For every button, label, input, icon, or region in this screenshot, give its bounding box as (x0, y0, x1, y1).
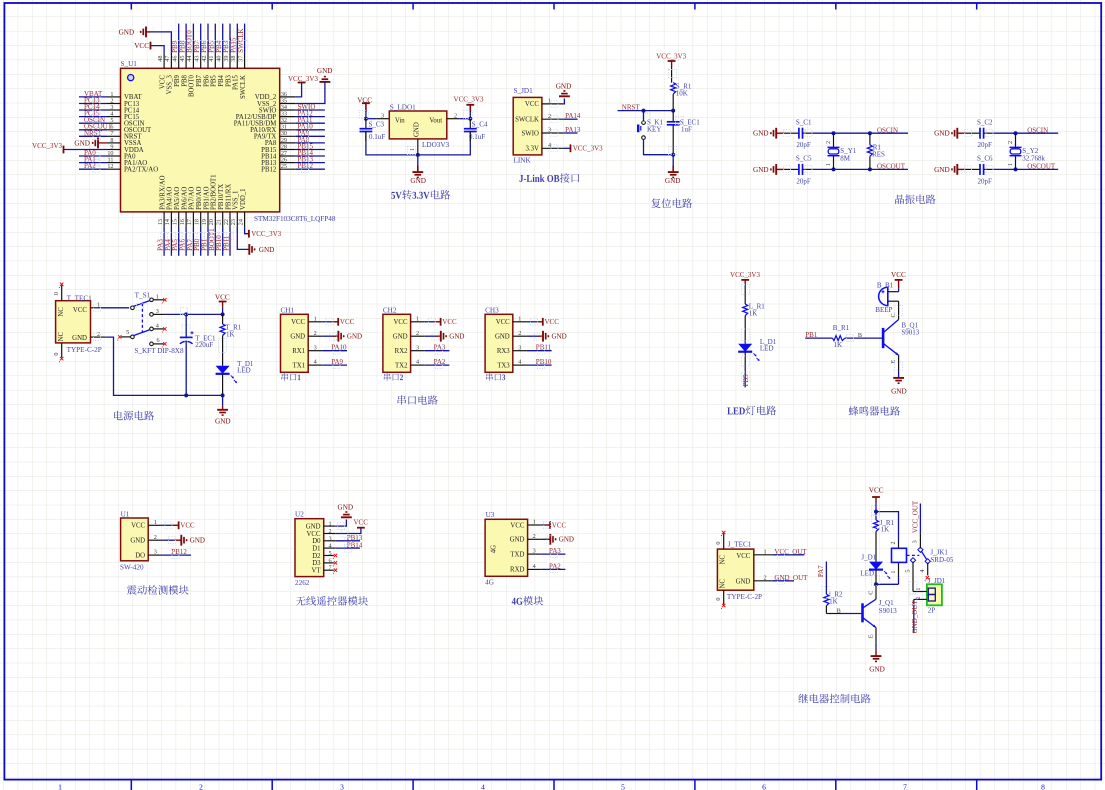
svg-text:BOOT0: BOOT0 (189, 74, 196, 97)
svg-text:1: 1 (825, 163, 832, 166)
wire net SWCLK to U1 top pin 37 (244, 24, 246, 53)
wire U3 pin1 to VCC (541, 524, 545, 526)
svg-text:GND: GND (495, 334, 510, 341)
svg-text:D3: D3 (312, 560, 321, 567)
ground at U1 pin 47 VSS_3 (119, 27, 172, 53)
svg-text:VSS_3: VSS_3 (167, 75, 174, 95)
svg-text:19: 19 (201, 219, 208, 225)
ground (power circuit) (215, 395, 231, 425)
svg-text:J_D1: J_D1 (861, 554, 876, 562)
svg-text:7: 7 (328, 565, 331, 572)
ground (crystal OSCOUT row) (934, 164, 965, 175)
svg-text:PA2: PA2 (84, 162, 96, 170)
wire LDO1 Vout to C4 (447, 117, 473, 121)
ground at U3 (545, 534, 574, 545)
svg-text:1: 1 (97, 302, 100, 309)
wire net PB1 from U1 bottom pin 19 (207, 227, 209, 256)
no-connect on S1 pin 4 (163, 327, 166, 330)
svg-text:2P: 2P (928, 606, 936, 614)
svg-text:3: 3 (912, 540, 919, 543)
wire net PB7 to U1 top pin 43 (200, 24, 202, 53)
svg-text:1K: 1K (829, 598, 838, 606)
svg-text:E: E (890, 359, 897, 363)
svg-text:3: 3 (381, 112, 384, 119)
svg-text:VSS_1: VSS_1 (233, 191, 240, 210)
svg-text:STM32F103C8T6_LQFP48: STM32F103C8T6_LQFP48 (254, 215, 336, 223)
power flag VCC_3V3 at JD1 pin4 (571, 144, 604, 152)
no-connect U2 pin5 (334, 554, 337, 557)
svg-text:VCC: VCC (73, 307, 87, 314)
svg-text:GND: GND (259, 246, 275, 254)
wire Q1 collector (867, 584, 876, 599)
wire K1 to ground rail (644, 139, 674, 154)
wire VCC_3V3 to U1 pin 36 (296, 83, 302, 97)
svg-text:2: 2 (97, 331, 100, 338)
wire net VBAT to U1 pin 1 (79, 96, 107, 98)
svg-text:1: 1 (533, 519, 536, 526)
power flag VCC_3V3 (led circuit) (730, 271, 760, 304)
wire JD1 pin4 to VCC_3V3 (563, 147, 570, 149)
wire CH2 pin2 to GND (425, 335, 435, 337)
svg-text:VCC: VCC (215, 294, 230, 302)
sheet column numbers (58, 783, 1045, 790)
wire VDD_1 to VCC_3V3 flag (245, 227, 249, 234)
J_TEC1 bottom NC pin with no-connect (715, 590, 726, 609)
wire net GND_OUT (772, 580, 794, 582)
svg-text:2: 2 (314, 330, 317, 337)
module U1 body (SW-420) (121, 518, 149, 561)
wire CH3 pin3 to PB11 (527, 350, 552, 352)
svg-text:PB11/RX: PB11/RX (225, 184, 232, 210)
resistor R1 (RES) (867, 133, 885, 169)
power flag VCC_3V3 at U1 pin 9 VDDA (32, 142, 107, 153)
svg-text:LDO3V3: LDO3V3 (422, 141, 450, 149)
svg-text:2: 2 (1007, 141, 1014, 144)
wire buzzer to Q1 collector (890, 301, 899, 319)
svg-text:LED: LED (760, 344, 774, 352)
svg-text:VDD_1: VDD_1 (240, 188, 247, 210)
TEC1 bottom NC pin with no-connect (53, 343, 64, 362)
circuit title J-Link OB (519, 173, 579, 183)
svg-text:GND: GND (306, 523, 321, 530)
resistor R1 (S_R1 10K) (671, 83, 692, 98)
svg-text:14: 14 (164, 219, 171, 225)
svg-text:PB10: PB10 (536, 358, 552, 366)
svg-text:SWIO: SWIO (522, 130, 539, 137)
svg-text:VCC_3V3: VCC_3V3 (32, 142, 62, 150)
power flag VCC_3V3 (LDO output) (454, 95, 484, 118)
svg-text:RX2: RX2 (395, 348, 408, 355)
svg-text:T_TEC1: T_TEC1 (67, 294, 93, 302)
svg-text:PA3: PA3 (549, 547, 561, 555)
wire LDO ground rail (366, 132, 470, 157)
svg-text:RX3: RX3 (497, 348, 510, 355)
svg-text:10K: 10K (676, 90, 688, 98)
svg-text:VCC: VCC (159, 75, 166, 89)
svg-text:1K: 1K (226, 331, 235, 339)
wire CH2 pin4 to PA2 (425, 364, 450, 366)
svg-text:4: 4 (533, 563, 536, 570)
svg-text:20pF: 20pF (796, 141, 811, 149)
svg-text:SW-420: SW-420 (120, 563, 144, 571)
svg-text:VCC: VCC (496, 319, 510, 326)
svg-text:4G: 4G (490, 545, 497, 553)
svg-text:GND: GND (190, 537, 205, 545)
svg-text:SWCLK: SWCLK (515, 117, 539, 124)
resistor R1 (J_R1 1K) (874, 512, 895, 534)
ground (crystal OSCOUT row) (753, 164, 784, 175)
circuit title 5V to 3.3V (391, 190, 450, 200)
ground at U1 pin 23 VSS_1 (237, 227, 274, 255)
wire JD1 pin1 from relay pin5 (913, 588, 927, 592)
svg-text:VCC: VCC (291, 319, 305, 326)
wire net PA4 from U1 bottom pin 14 (170, 227, 172, 256)
svg-text:KEY: KEY (647, 125, 661, 133)
svg-text:CH2: CH2 (383, 306, 397, 314)
circuit title reset (651, 198, 692, 208)
svg-text:TXD: TXD (510, 551, 524, 558)
svg-text:PB12: PB12 (261, 167, 277, 174)
wire net PA9 to U1 pin 30 (296, 135, 325, 137)
svg-text:0: 0 (715, 542, 722, 545)
wire U1 pin1 to VCC (162, 524, 172, 526)
switch K1 (S_K1 KEY) (638, 111, 663, 140)
svg-text:17: 17 (186, 219, 193, 225)
svg-text:GND: GND (410, 177, 426, 185)
svg-text:6: 6 (328, 557, 331, 564)
wire CH1 pin2 to GND (322, 335, 332, 337)
svg-text:GND: GND (559, 536, 574, 544)
svg-text:B: B (858, 332, 862, 339)
wire U1 pin2 to GND (162, 539, 174, 541)
svg-text:2: 2 (915, 597, 922, 600)
svg-text:4G: 4G (485, 579, 494, 587)
svg-text:VCC_3V3: VCC_3V3 (730, 271, 760, 279)
svg-text:TYPE-C-2P: TYPE-C-2P (727, 593, 762, 601)
svg-text:Vin: Vin (395, 118, 405, 125)
wire Q1 emitter to GND (867, 628, 876, 650)
CH2 pins (411, 315, 425, 365)
svg-text:1K: 1K (749, 310, 758, 318)
svg-text:PB7: PB7 (196, 75, 203, 87)
svg-text:GND: GND (556, 83, 572, 91)
svg-text:2: 2 (454, 112, 457, 119)
svg-text:TYPE-C-2P: TYPE-C-2P (67, 346, 102, 354)
J_TEC1 pin1 to VCC_OUT (754, 548, 808, 556)
svg-text:24: 24 (237, 219, 244, 225)
svg-text:LED: LED (237, 366, 251, 374)
svg-text:4: 4 (314, 359, 317, 366)
svg-text:PA5/AO: PA5/AO (174, 187, 181, 210)
ground above U2 (338, 503, 354, 517)
svg-text:S_C3: S_C3 (369, 121, 385, 129)
wire VCC to U1 pin 48 (151, 46, 165, 53)
wire GND to U1 pin 47 (151, 32, 172, 53)
svg-text:6: 6 (157, 337, 160, 344)
wire net VCC_OUT (772, 554, 804, 556)
svg-text:5: 5 (904, 570, 911, 573)
svg-text:3: 3 (314, 344, 317, 351)
svg-text:VCC: VCC (545, 318, 560, 326)
wire net PB13 to U1 pin 26 (296, 162, 325, 164)
svg-text:PB1/AO: PB1/AO (203, 186, 210, 210)
power flag VCC (LDO input) (357, 96, 372, 118)
svg-text:S9013: S9013 (901, 329, 919, 337)
svg-text:VCC_3V3: VCC_3V3 (251, 230, 281, 238)
svg-text:3: 3 (328, 535, 331, 542)
svg-text:5: 5 (126, 329, 129, 336)
svg-text:PB5: PB5 (211, 75, 218, 87)
svg-text:TX2: TX2 (395, 362, 408, 369)
wire net NRST to U1 pin 7 (79, 135, 107, 137)
svg-text:SWCLK: SWCLK (240, 75, 247, 99)
svg-text:S_KFT DIP-8X8: S_KFT DIP-8X8 (134, 347, 184, 355)
wire net PB12 to U1 pin 25 (296, 168, 325, 170)
svg-text:B_R1: B_R1 (833, 324, 850, 332)
relay JK1 switch contacts (910, 547, 930, 564)
wire CH1 pin1 to VCC (322, 321, 332, 323)
svg-text:S_JD1: S_JD1 (514, 87, 534, 95)
ground at JD1 pin1 (556, 83, 572, 97)
svg-text:VCC: VCC (736, 553, 750, 560)
switch S1 (T_S1 S_KFT DIP-8X8) (121, 291, 184, 355)
led D1 (T_D1 LED) (216, 360, 254, 395)
svg-text:3: 3 (518, 344, 521, 351)
svg-text:CH1: CH1 (281, 306, 295, 314)
regulator U2 body (S_LDO1 LDO3V3) (389, 111, 447, 139)
TEC1 pin2 GND (91, 331, 106, 338)
svg-text:GND: GND (869, 665, 885, 673)
wire S1 pin3 to VCC node (165, 312, 225, 316)
svg-text:VCC: VCC (891, 271, 906, 279)
resistor R1 (L_R1 1K) (743, 303, 766, 318)
svg-text:0: 0 (53, 353, 60, 356)
wire net PA15 to U1 top pin 38 (236, 24, 238, 53)
svg-text:3: 3 (416, 344, 419, 351)
svg-text:VCC_3V3: VCC_3V3 (656, 53, 686, 61)
svg-text:TX1: TX1 (293, 362, 305, 369)
ground (reset) (665, 153, 681, 185)
wire U2 pin2 to VCC (335, 528, 361, 534)
svg-text:5: 5 (328, 550, 331, 557)
svg-text:PA7/AO: PA7/AO (189, 187, 196, 210)
svg-text:220uF: 220uF (195, 341, 213, 349)
svg-text:1: 1 (328, 521, 331, 528)
svg-text:TX3: TX3 (497, 362, 510, 369)
svg-text:LINK: LINK (514, 157, 532, 165)
svg-text:U2: U2 (295, 511, 304, 519)
CH3 pins (513, 315, 527, 365)
wire U3 pin3 to PA3 (541, 553, 566, 555)
svg-text:38: 38 (230, 56, 237, 62)
ground at CH2 (435, 331, 465, 342)
ground at CH3 (537, 331, 567, 342)
power flag VCC at U2 (353, 518, 368, 527)
capacitor S_C6 20pF (965, 155, 993, 186)
module U3 body (4G) (485, 519, 527, 576)
svg-text:4: 4 (548, 142, 551, 149)
svg-text:22: 22 (223, 219, 230, 225)
svg-text:PA6/AO: PA6/AO (181, 187, 188, 210)
svg-text:J_JD1: J_JD1 (928, 577, 946, 585)
svg-text:41: 41 (208, 56, 215, 62)
power flag VCC at CH1 (332, 318, 355, 326)
wire net SWIO to U1 pin 34 (296, 109, 325, 111)
circuit title crystal (895, 194, 935, 204)
svg-text:J_TEC1: J_TEC1 (728, 541, 752, 549)
svg-text:GND: GND (130, 538, 145, 545)
wire net OSCOUT (813, 167, 909, 171)
svg-text:GND_OUT: GND_OUT (911, 600, 919, 634)
connector JD1 body (S_JD1 LINK) (513, 97, 542, 154)
connector TEC1 body (J_TEC1 TYPE-C-2P) (717, 549, 753, 590)
power flag VCC at CH2 (434, 318, 457, 326)
svg-text:20pF: 20pF (796, 177, 811, 185)
svg-text:0: 0 (715, 598, 722, 601)
svg-text:CH3: CH3 (485, 306, 499, 314)
svg-text:1: 1 (518, 315, 521, 322)
no-connect U2 pin6 (334, 561, 337, 565)
svg-text:GND: GND (72, 335, 87, 342)
ground at CH1 (333, 331, 363, 342)
svg-text:2: 2 (890, 541, 897, 544)
power flag VCC_3V3 at U1 pin 36 VDD_2 (288, 75, 318, 97)
led D1 (J_D1 LED) (860, 554, 890, 579)
svg-text:3: 3 (340, 783, 344, 790)
svg-text:GND: GND (665, 177, 681, 185)
svg-text:40: 40 (215, 55, 222, 61)
buzzer B1 (B_B1 BEEP) (875, 281, 898, 314)
svg-text:GND: GND (393, 334, 408, 341)
wire VSS_1 to GND (237, 227, 249, 250)
svg-text:VCC_OUT: VCC_OUT (912, 500, 920, 533)
svg-text:20pF: 20pF (978, 141, 993, 149)
svg-text:GND: GND (934, 130, 950, 138)
wire TEC1 VCC to switch S1 (101, 307, 130, 309)
wire U3 pin2 to GND (541, 538, 545, 540)
svg-text:3: 3 (154, 549, 157, 556)
name serial port 3 (486, 373, 505, 381)
wire VCC to LDO1 Vin and C3 (364, 117, 389, 121)
wire net OSCIN to U1 pin 5 (79, 122, 107, 124)
svg-text:VCC_OUT: VCC_OUT (774, 548, 807, 556)
power flag VCC at CH3 (536, 318, 559, 326)
wire net PA2 to U1 pin 12 (79, 168, 107, 170)
svg-text:PB3: PB3 (225, 74, 232, 86)
capacitor C3 (S_C3 0.1uF) (360, 119, 386, 141)
wire net PA0 to U1 pin 10 (79, 155, 107, 157)
svg-text:C: C (890, 313, 897, 317)
ground at U1 pin 8 VSSA (74, 138, 107, 149)
svg-text:T_S1: T_S1 (135, 291, 151, 299)
svg-text:PA14: PA14 (565, 112, 581, 120)
svg-text:4: 4 (416, 359, 419, 366)
ground (crystal OSCIN row) (934, 128, 965, 139)
svg-text:1: 1 (314, 315, 317, 322)
svg-text:2: 2 (416, 330, 419, 337)
no-connect on S1 pin 1 (163, 298, 166, 301)
svg-text:BEEP: BEEP (875, 306, 892, 314)
wire net PA7 from U1 bottom pin 17 (192, 227, 194, 256)
svg-text:2: 2 (763, 575, 766, 582)
svg-text:GND: GND (449, 333, 464, 341)
circuit title wireless remote (296, 596, 368, 606)
wire net PB8 to U1 top pin 45 (185, 24, 187, 53)
relay pin4 with no-connect (919, 563, 929, 582)
wire net BOOT0 to U1 top pin 44 (192, 24, 194, 53)
circuit title relay control (798, 694, 870, 704)
svg-text:VCC: VCC (525, 101, 539, 108)
svg-text:2: 2 (548, 113, 551, 120)
wire net PA12 to U1 pin 33 (296, 116, 325, 118)
svg-text:GND: GND (753, 166, 769, 174)
svg-text:4: 4 (481, 783, 485, 790)
svg-text:1: 1 (1007, 163, 1014, 166)
wire net BOOT1 from U1 bottom pin 20 (214, 227, 216, 256)
wire net PA10 to U1 pin 31 (296, 129, 325, 131)
wire net OSCIN (994, 131, 1059, 135)
svg-text:S9013: S9013 (879, 607, 897, 615)
svg-text:VCC: VCC (307, 531, 321, 538)
svg-text:23: 23 (230, 219, 237, 225)
svg-text:2: 2 (328, 528, 331, 535)
capacitor EC1 (T_EC1 220uF) (180, 314, 216, 395)
wire J_R2 to Q1 base (826, 606, 861, 615)
svg-text:16: 16 (179, 219, 186, 225)
power flag VCC (relay) (869, 486, 884, 511)
no-connect on S1 pin 5 (118, 335, 121, 338)
svg-text:20: 20 (208, 219, 215, 225)
svg-text:OSCOUT: OSCOUT (1027, 163, 1056, 171)
svg-text:U1: U1 (121, 510, 130, 518)
svg-text:0: 0 (53, 292, 60, 295)
svg-text:48: 48 (157, 56, 164, 62)
wire J_R1 to J_D1 (875, 532, 877, 562)
svg-text:GND: GND (74, 139, 90, 147)
wire VCC node to relay coil (874, 510, 899, 549)
svg-text:15: 15 (172, 219, 179, 225)
svg-text:1: 1 (548, 98, 551, 105)
svg-text:1: 1 (915, 588, 922, 591)
circuit title serial (398, 395, 438, 405)
svg-text:S_C6: S_C6 (977, 155, 993, 163)
svg-text:GND: GND (317, 67, 333, 75)
svg-text:GND: GND (552, 333, 567, 341)
ground (crystal OSCIN row) (753, 128, 784, 139)
wire VCC to buzzer positive (898, 288, 900, 291)
svg-text:S_C1: S_C1 (796, 118, 812, 126)
wire U3 pin4 to PA2 (541, 568, 566, 570)
svg-text:PA2/TX/AO: PA2/TX/AO (124, 167, 158, 174)
svg-text:S_LDO1: S_LDO1 (390, 104, 416, 112)
wire JD1 pin2 to GND_OUT (911, 597, 927, 634)
wire net PA1 to U1 pin 11 (79, 162, 107, 164)
svg-text:D2: D2 (312, 553, 321, 560)
TEC1 pin1 VCC (91, 302, 101, 309)
resistor R1 (B_R1 1K) (832, 324, 849, 349)
svg-text:3: 3 (156, 308, 159, 315)
svg-text:GND_OUT: GND_OUT (774, 574, 808, 582)
svg-text:1: 1 (156, 293, 159, 300)
svg-text:S_C4: S_C4 (472, 121, 488, 129)
svg-text:0.1uF: 0.1uF (369, 133, 385, 141)
svg-text:GND: GND (891, 388, 907, 396)
svg-text:PB9: PB9 (174, 75, 181, 87)
svg-text:1uF: 1uF (681, 125, 692, 133)
connector CH3 body (485, 314, 513, 372)
ground below LDO (410, 155, 426, 185)
connector CH1 body (281, 314, 309, 372)
